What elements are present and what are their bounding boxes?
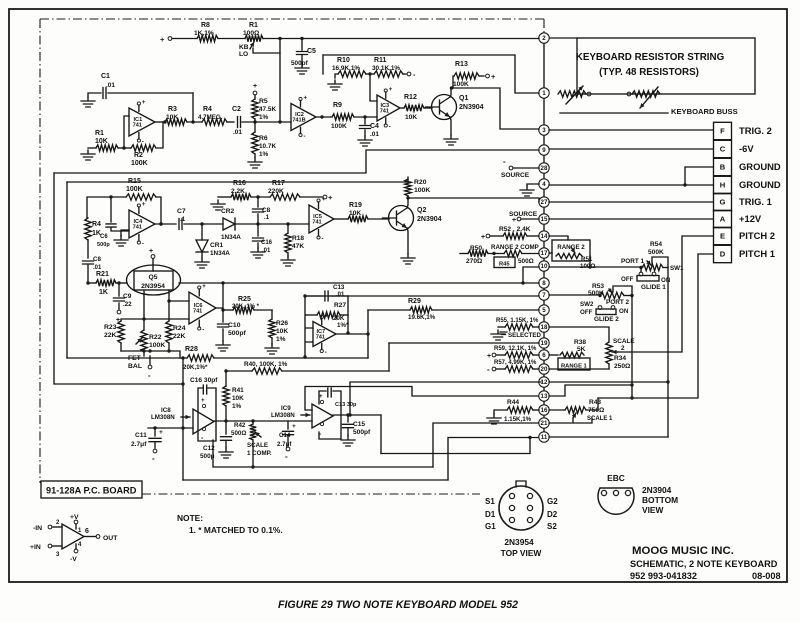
svg-text:.01: .01 bbox=[370, 131, 379, 138]
svg-text:100K: 100K bbox=[149, 342, 165, 349]
svg-text:2: 2 bbox=[621, 345, 625, 352]
svg-text:S1: S1 bbox=[485, 497, 495, 506]
svg-text:741: 741 bbox=[193, 309, 202, 315]
svg-text:-: - bbox=[503, 157, 506, 166]
R43 pot (SCALE 1) bbox=[549, 409, 565, 411]
svg-text:.01: .01 bbox=[262, 248, 271, 254]
svg-text:+: + bbox=[202, 284, 206, 290]
svg-text:R3: R3 bbox=[168, 106, 177, 113]
svg-text:1: 1 bbox=[542, 90, 546, 97]
svg-text:500K: 500K bbox=[648, 249, 664, 256]
svg-text:D2: D2 bbox=[547, 510, 558, 519]
svg-text:1N34A: 1N34A bbox=[210, 250, 230, 257]
bus node 19 bbox=[539, 338, 549, 348]
svg-text:.1: .1 bbox=[264, 215, 270, 221]
svg-text:BOTTOM: BOTTOM bbox=[642, 495, 678, 505]
svg-text:R8: R8 bbox=[201, 22, 210, 29]
svg-text:TOP VIEW: TOP VIEW bbox=[501, 548, 542, 558]
svg-text:3: 3 bbox=[542, 127, 546, 134]
wire node 10 left branch bbox=[523, 267, 539, 283]
svg-text:20K,1%*: 20K,1%* bbox=[183, 364, 208, 371]
svg-text:R19: R19 bbox=[349, 202, 362, 209]
transistor Q1 bbox=[432, 95, 457, 120]
wire node 4 to pin H bbox=[549, 184, 713, 186]
svg-text:C5: C5 bbox=[307, 48, 316, 55]
svg-text:LO: LO bbox=[239, 51, 248, 58]
bus node 16 bbox=[539, 405, 549, 415]
bus node 7 bbox=[539, 290, 549, 300]
2N3954 top view diagram bbox=[499, 486, 543, 530]
svg-text:PITCH 2: PITCH 2 bbox=[739, 230, 775, 241]
R54 wiper strap bbox=[652, 257, 668, 268]
svg-text:C1: C1 bbox=[101, 73, 110, 80]
keyboard string resistor 1 bbox=[558, 91, 586, 97]
svg-text:R1: R1 bbox=[249, 22, 258, 29]
wire R10-R11 junction to IC3 input bbox=[370, 74, 377, 101]
svg-text:R4: R4 bbox=[92, 221, 101, 228]
bus node 1 bbox=[539, 88, 549, 98]
bus node 13 bbox=[539, 391, 549, 401]
svg-text:R2: R2 bbox=[134, 152, 143, 159]
bottom rail 3 bbox=[183, 479, 448, 481]
svg-text:LM308N: LM308N bbox=[151, 414, 175, 421]
svg-text:R38: R38 bbox=[574, 339, 586, 346]
svg-text:R15: R15 bbox=[128, 178, 141, 185]
bus node 10 bbox=[539, 261, 549, 271]
svg-text:+V: +V bbox=[70, 514, 79, 521]
svg-text:20: 20 bbox=[541, 366, 548, 373]
svg-text:-: - bbox=[142, 140, 144, 146]
svg-text:OFF: OFF bbox=[621, 276, 634, 283]
bus node 2 bbox=[539, 33, 549, 43]
svg-text:+: + bbox=[159, 429, 163, 436]
svg-text:-: - bbox=[152, 454, 155, 463]
resistor R6 bbox=[254, 122, 256, 132]
wire IC8 input bbox=[148, 427, 193, 429]
connector pin A (+12V) bbox=[714, 210, 732, 227]
svg-text:91-128A P.C. BOARD: 91-128A P.C. BOARD bbox=[46, 486, 137, 496]
wire IC5 output to R19 bbox=[334, 218, 348, 220]
RANGE 2 box with R51 bbox=[552, 240, 590, 261]
svg-text:R12: R12 bbox=[404, 94, 417, 101]
svg-text:2N3954: 2N3954 bbox=[504, 537, 534, 547]
svg-text:15: 15 bbox=[541, 216, 548, 223]
svg-text:-: - bbox=[142, 242, 144, 248]
stage2 box top bbox=[67, 181, 408, 183]
svg-text:R54: R54 bbox=[650, 241, 662, 248]
svg-text:.22: .22 bbox=[123, 301, 132, 308]
op-amp IC5 bbox=[309, 205, 334, 233]
diode CR1 bbox=[201, 224, 203, 240]
wire R53 right down to D line bbox=[631, 296, 633, 399]
capacitor C14 bbox=[287, 421, 289, 429]
resistor R25 bbox=[223, 309, 233, 311]
resistor R12 bbox=[400, 107, 404, 109]
svg-text:NOTE:: NOTE: bbox=[177, 513, 203, 523]
svg-text:+: + bbox=[512, 217, 516, 224]
Q5 source leads down bbox=[144, 290, 169, 330]
svg-text:GROUND: GROUND bbox=[739, 161, 781, 172]
wire node 13 left path to IC9 input bbox=[305, 387, 538, 411]
svg-text:2N3904: 2N3904 bbox=[642, 485, 672, 495]
svg-text:F: F bbox=[720, 127, 725, 136]
svg-text:13: 13 bbox=[541, 393, 548, 400]
svg-text:28: 28 bbox=[541, 165, 548, 172]
wire node 19 branch down to R40 line bbox=[388, 343, 390, 371]
svg-text:1%: 1% bbox=[276, 336, 286, 343]
svg-text:SOURCE: SOURCE bbox=[501, 172, 530, 179]
svg-text:KEYBOARD RESISTOR STRING: KEYBOARD RESISTOR STRING bbox=[576, 52, 725, 63]
svg-text:18: 18 bbox=[541, 324, 548, 331]
resistor R15 bbox=[126, 194, 156, 200]
wire IC7 output bbox=[336, 333, 368, 335]
svg-text:500Ω: 500Ω bbox=[231, 430, 246, 437]
svg-text:SCALE 1: SCALE 1 bbox=[587, 416, 613, 422]
svg-text:-: - bbox=[487, 365, 490, 374]
svg-text:+: + bbox=[149, 248, 153, 255]
svg-text:08-008: 08-008 bbox=[752, 571, 781, 581]
svg-text:10K: 10K bbox=[232, 395, 244, 402]
svg-text:S2: S2 bbox=[547, 522, 557, 531]
svg-text:22K: 22K bbox=[173, 333, 186, 340]
svg-text:R17: R17 bbox=[272, 180, 285, 187]
wire R40 line bbox=[226, 370, 252, 372]
svg-text:1K: 1K bbox=[99, 289, 108, 296]
resistor R19 bbox=[348, 216, 368, 222]
svg-text:+: + bbox=[328, 193, 333, 202]
svg-text:2: 2 bbox=[542, 35, 546, 42]
svg-text:R10: R10 bbox=[337, 57, 350, 64]
svg-text:R4: R4 bbox=[203, 106, 212, 113]
resistor R41 bbox=[225, 371, 227, 386]
svg-text:C8: C8 bbox=[262, 207, 271, 214]
svg-text:ON: ON bbox=[619, 308, 629, 315]
wire node 12 branch down to IC9 bbox=[350, 382, 541, 415]
op-amp IC4 bbox=[129, 210, 155, 238]
svg-text:100K: 100K bbox=[126, 186, 143, 193]
wire Q1 collector to bus node 3 bbox=[451, 88, 539, 129]
svg-text:19: 19 bbox=[541, 340, 548, 347]
svg-text:+: + bbox=[481, 234, 485, 241]
resistor R22 (FET BAL pot) bbox=[141, 330, 147, 352]
svg-text:5: 5 bbox=[542, 307, 546, 314]
resistor R9 bbox=[332, 114, 354, 120]
keyboard string resistor 2 bbox=[627, 92, 631, 96]
svg-text:G1: G1 bbox=[485, 522, 496, 531]
svg-text:R18: R18 bbox=[292, 235, 304, 242]
svg-text:500p: 500p bbox=[97, 242, 110, 248]
capacitor C4 bbox=[364, 117, 366, 124]
bus node 3 bbox=[539, 125, 549, 135]
svg-text:R41: R41 bbox=[232, 387, 244, 394]
svg-text:SCALE: SCALE bbox=[613, 338, 635, 345]
svg-text:A: A bbox=[720, 215, 726, 224]
svg-text:+: + bbox=[389, 87, 393, 93]
capacitor C9 bbox=[118, 283, 120, 296]
svg-text:500Ω: 500Ω bbox=[518, 258, 534, 265]
ground at node 4 bbox=[527, 184, 539, 186]
bottom rail 1 bbox=[381, 438, 530, 454]
svg-text:KB: KB bbox=[239, 44, 249, 51]
wire R1 wiper rheostat loop bbox=[253, 39, 280, 54]
bus node 12 bbox=[539, 377, 549, 387]
resistor R23 bbox=[118, 321, 124, 343]
keyboard resistor string box bbox=[577, 38, 755, 94]
svg-text:10K: 10K bbox=[95, 138, 108, 145]
svg-text:G: G bbox=[720, 198, 726, 207]
svg-text:+12V: +12V bbox=[739, 213, 762, 224]
svg-text:R6: R6 bbox=[259, 135, 268, 142]
resistor R4 (1K) vertical bbox=[85, 218, 91, 240]
connector pin E (PITCH 2) bbox=[714, 227, 732, 244]
resistor R3 bbox=[165, 119, 187, 125]
svg-text:R24: R24 bbox=[173, 325, 186, 332]
svg-text:-: - bbox=[304, 134, 306, 140]
svg-text:952 993-041832: 952 993-041832 bbox=[630, 571, 697, 581]
svg-text:H: H bbox=[720, 181, 725, 190]
svg-text:1N34A: 1N34A bbox=[221, 234, 241, 241]
wire feedback verticals bbox=[305, 296, 313, 357]
svg-text:17: 17 bbox=[541, 250, 548, 257]
svg-text:TRIG. 2: TRIG. 2 bbox=[739, 125, 772, 136]
svg-text:R26: R26 bbox=[276, 320, 288, 327]
connector pin F (TRIG. 2) bbox=[714, 122, 732, 139]
bus node 18 bbox=[539, 322, 549, 332]
wire long feed line y=173 to bus node 9 bbox=[54, 150, 539, 173]
FET Q5 2N3954 bbox=[127, 265, 181, 295]
svg-text:R1: R1 bbox=[95, 130, 104, 137]
keyboard buss wire bbox=[560, 112, 668, 114]
svg-text:10K: 10K bbox=[405, 114, 417, 121]
resistor R50 bbox=[460, 253, 468, 255]
resistor R16 with ground bbox=[211, 200, 225, 210]
wire R1 junction down to IC2 input bbox=[279, 53, 281, 122]
bus vertical wire bbox=[543, 38, 545, 437]
connector pin C (-6V) bbox=[714, 140, 732, 157]
svg-text:C9: C9 bbox=[123, 293, 132, 300]
Q5 right lead to bus node 8 bbox=[179, 282, 539, 284]
wire R28 line bbox=[67, 357, 187, 359]
svg-text:+: + bbox=[142, 202, 146, 208]
resistor R8 bbox=[197, 35, 218, 41]
svg-text:VIEW: VIEW bbox=[642, 505, 663, 515]
svg-text:R40, 100K, 1%: R40, 100K, 1% bbox=[244, 361, 288, 368]
svg-text:SW2: SW2 bbox=[580, 301, 594, 308]
svg-text:6: 6 bbox=[542, 352, 546, 359]
svg-text:EBC: EBC bbox=[607, 473, 625, 483]
svg-text:47.5K: 47.5K bbox=[259, 106, 276, 113]
svg-text:R22: R22 bbox=[149, 334, 162, 341]
svg-text:R51: R51 bbox=[581, 256, 593, 263]
Q1 emitter ground bbox=[450, 117, 451, 135]
svg-text:+: + bbox=[491, 72, 496, 81]
svg-text:IC8: IC8 bbox=[161, 407, 171, 414]
svg-text:22K: 22K bbox=[104, 332, 117, 339]
svg-text:47K: 47K bbox=[292, 243, 304, 250]
svg-text:Q1: Q1 bbox=[459, 95, 468, 102]
wire node 3 to pin F bbox=[549, 129, 713, 131]
svg-text:9: 9 bbox=[542, 147, 546, 154]
svg-text:GROUND: GROUND bbox=[739, 179, 781, 190]
Q1 collector wire bbox=[450, 88, 451, 97]
svg-text:R52 , 2.4K: R52 , 2.4K bbox=[499, 226, 531, 233]
connector pin H (GROUND) bbox=[714, 176, 732, 193]
svg-text:+: + bbox=[160, 35, 165, 44]
bus node 14 bbox=[539, 231, 549, 241]
Q2 emitter ground bbox=[407, 228, 408, 254]
svg-text:1%*: 1%* bbox=[337, 322, 349, 329]
svg-text:741: 741 bbox=[380, 109, 389, 115]
resistor R13 bbox=[453, 76, 454, 88]
svg-text:R28: R28 bbox=[185, 346, 198, 353]
svg-text:10K: 10K bbox=[276, 328, 288, 335]
svg-text:+IN: +IN bbox=[30, 544, 41, 551]
wire node 21 left riser bbox=[433, 423, 538, 467]
wire R29 riser down to R28 line bbox=[367, 310, 369, 358]
svg-text:R27: R27 bbox=[334, 302, 346, 309]
svg-text:500pf: 500pf bbox=[228, 330, 246, 337]
svg-text:C14: C14 bbox=[279, 432, 291, 439]
R43 wiper to node 21 bbox=[573, 413, 576, 418]
svg-text:100K: 100K bbox=[331, 123, 347, 130]
connector pin B (GROUND) bbox=[714, 158, 732, 175]
svg-text:D: D bbox=[720, 250, 726, 259]
op-amp IC2 bbox=[291, 104, 316, 131]
svg-text:CR1: CR1 bbox=[210, 242, 224, 249]
wire pin B to pin H wire bbox=[685, 167, 713, 185]
wire pin D down to R43 bbox=[598, 254, 713, 398]
svg-text:C7: C7 bbox=[177, 208, 186, 215]
wire IC8 output bbox=[214, 420, 312, 422]
svg-text:250Ω: 250Ω bbox=[614, 363, 631, 370]
wire node 7 line bbox=[306, 295, 539, 297]
Q2 collector wire to bus node 27 bbox=[407, 198, 408, 208]
svg-text:R42: R42 bbox=[234, 422, 246, 429]
svg-text:270Ω: 270Ω bbox=[466, 258, 483, 265]
svg-text:+: + bbox=[325, 314, 329, 320]
svg-text:2N3904: 2N3904 bbox=[417, 216, 442, 223]
svg-text:.01: .01 bbox=[233, 129, 242, 136]
svg-text:1%: 1% bbox=[232, 403, 242, 410]
resistor R26 bbox=[271, 310, 273, 319]
capacitor C6 bbox=[110, 197, 112, 222]
svg-text:1 COMP.: 1 COMP. bbox=[247, 450, 272, 457]
svg-text:500pf: 500pf bbox=[291, 60, 309, 67]
svg-text:6: 6 bbox=[85, 528, 89, 535]
wire SW1 down to node 11 line bbox=[667, 268, 669, 438]
wire node 12 right bbox=[549, 381, 668, 383]
resistor R1 (10K) bbox=[81, 150, 95, 160]
left vertical to bottom rail bbox=[182, 358, 184, 480]
wire node 27 to pin G bbox=[549, 201, 713, 203]
wire IC4 output bbox=[155, 223, 176, 225]
R53 wiper strap bbox=[613, 286, 632, 296]
bus node 17 bbox=[539, 248, 549, 258]
svg-text:G2: G2 bbox=[547, 497, 558, 506]
svg-text:220K: 220K bbox=[268, 188, 284, 195]
svg-text:2N3904: 2N3904 bbox=[459, 104, 484, 111]
capacitor C12 bbox=[225, 421, 227, 434]
resistor R21 bbox=[88, 282, 96, 284]
svg-text:.01: .01 bbox=[336, 292, 345, 298]
svg-text:20K: 20K bbox=[333, 315, 345, 322]
svg-text:-: - bbox=[285, 452, 288, 461]
svg-text:100K: 100K bbox=[414, 187, 430, 194]
svg-text:R44: R44 bbox=[507, 399, 519, 406]
capacitor C8 (.1) bbox=[257, 197, 259, 207]
capacitor C5 bbox=[301, 39, 303, 51]
svg-text:741: 741 bbox=[133, 225, 142, 231]
svg-text:+: + bbox=[292, 423, 296, 430]
bottom rail 2 bbox=[213, 440, 433, 467]
svg-text:C16 30pf: C16 30pf bbox=[190, 377, 218, 384]
wire R1 to bus node 2 bbox=[263, 38, 539, 40]
svg-text:R45: R45 bbox=[499, 262, 510, 268]
svg-text:C8: C8 bbox=[93, 256, 101, 263]
op-amp IC1 bbox=[129, 108, 155, 136]
bus node 6 bbox=[539, 350, 549, 360]
P.C. board dash-dot outline bbox=[40, 19, 544, 494]
wire stage2 box top to bus node 1 bbox=[323, 55, 539, 93]
svg-text:-: - bbox=[389, 125, 391, 131]
svg-text:(TYP. 48 RESISTORS): (TYP. 48 RESISTORS) bbox=[599, 67, 699, 78]
capacitor C10 bbox=[222, 310, 224, 322]
svg-text:R21: R21 bbox=[96, 271, 109, 278]
op-amp pinout legend bbox=[62, 524, 84, 549]
svg-text:SCHEMATIC, 2 NOTE KEYBOARD: SCHEMATIC, 2 NOTE KEYBOARD bbox=[630, 559, 778, 569]
wire node 11 right bbox=[549, 436, 668, 438]
svg-text:C13: C13 bbox=[333, 284, 345, 291]
svg-text:30.1K,1%: 30.1K,1% bbox=[372, 65, 400, 72]
connector pin D (PITCH 1) bbox=[714, 245, 732, 262]
wire node 17 line (R50 R45) bbox=[549, 252, 552, 254]
svg-text:2.7μf: 2.7μf bbox=[277, 441, 292, 448]
svg-text:C13 30p: C13 30p bbox=[335, 402, 357, 408]
op-amp IC7 bbox=[313, 322, 336, 347]
svg-text:SW1: SW1 bbox=[670, 265, 684, 272]
svg-text:MOOG MUSIC INC.: MOOG MUSIC INC. bbox=[632, 545, 734, 557]
svg-text:C4: C4 bbox=[370, 123, 379, 130]
GLIDE 1 switch bbox=[637, 276, 659, 282]
svg-text:-: - bbox=[325, 350, 327, 356]
svg-text:+: + bbox=[304, 96, 308, 102]
91-128A P.C. board label box bbox=[41, 481, 142, 498]
wire node 2 to keyboard box bbox=[549, 37, 577, 39]
svg-text:-: - bbox=[148, 371, 151, 380]
svg-text:R29: R29 bbox=[408, 298, 421, 305]
wire IC1 minus input bbox=[124, 116, 129, 148]
svg-text:10: 10 bbox=[541, 263, 548, 270]
wire node 14 to RANGE2 box bbox=[549, 236, 568, 240]
bus node 11 bbox=[539, 432, 549, 442]
svg-text:16: 16 bbox=[541, 407, 548, 414]
wire IC9 output bbox=[333, 414, 381, 416]
resistor R24 bbox=[166, 321, 172, 343]
resistor R11 bbox=[374, 71, 403, 77]
svg-text:-: - bbox=[202, 328, 204, 334]
svg-text:OUT: OUT bbox=[103, 535, 118, 542]
svg-text:CR2: CR2 bbox=[221, 208, 235, 215]
svg-text:SCALE: SCALE bbox=[247, 442, 268, 449]
svg-text:-: - bbox=[322, 237, 324, 243]
resistor R10 bbox=[328, 80, 342, 90]
capacitor C8 (.01) bbox=[87, 240, 89, 258]
svg-text:100K: 100K bbox=[131, 160, 148, 167]
capacitor C7 bbox=[179, 219, 182, 230]
svg-text:D1: D1 bbox=[485, 510, 496, 519]
svg-text:4: 4 bbox=[542, 181, 546, 188]
svg-text:-V: -V bbox=[70, 556, 77, 563]
